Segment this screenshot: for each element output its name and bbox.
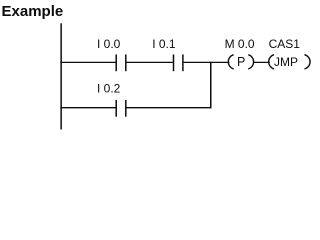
contact I0.2 <box>116 100 126 117</box>
coil P (pulse) <box>228 55 253 69</box>
left power rail <box>60 23 62 129</box>
svg-text:I 0.0: I 0.0 <box>97 37 121 51</box>
svg-text:M 0.0: M 0.0 <box>225 37 255 51</box>
wire rung1 rail to contact I0.0 <box>60 61 115 63</box>
contact I0.0 <box>116 54 126 71</box>
svg-text:Example: Example <box>2 3 64 20</box>
contact I0.1 <box>174 54 183 71</box>
svg-text:JMP: JMP <box>274 55 298 69</box>
branch junction vertical wire <box>210 62 212 109</box>
svg-text:CAS1: CAS1 <box>269 37 301 51</box>
wire rung2 rail to contact I0.2 <box>60 107 115 109</box>
wire coil P to coil JMP <box>254 61 270 63</box>
svg-text:P: P <box>237 55 245 69</box>
wire rung1 contact I0.1 to coil P <box>184 61 230 63</box>
wire rung2 contact I0.2 to branch junction <box>127 107 212 109</box>
svg-text:I 0.2: I 0.2 <box>97 82 121 96</box>
svg-text:I 0.1: I 0.1 <box>152 37 176 51</box>
coil JMP <box>269 55 310 69</box>
wire rung1 between contacts <box>127 61 173 63</box>
